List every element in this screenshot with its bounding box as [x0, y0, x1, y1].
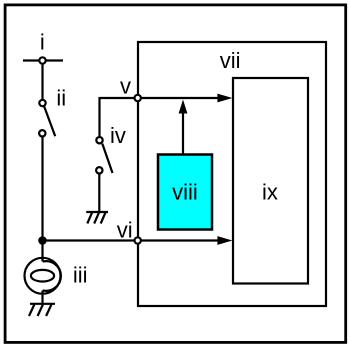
ground: [29, 304, 55, 316]
arrowhead: [217, 236, 232, 245]
svg-text:viii: viii: [172, 180, 198, 205]
svg-text:vi: vi: [117, 217, 133, 242]
node i: [23, 57, 63, 63]
enclosure vii: [138, 42, 326, 306]
switch ii: [39, 100, 55, 137]
svg-text:ii: ii: [56, 86, 66, 111]
svg-text:ix: ix: [262, 180, 278, 205]
svg-text:vii: vii: [220, 48, 241, 73]
wire: [41, 61, 43, 104]
wire: [43, 239, 223, 241]
source iii: [25, 258, 61, 294]
arrow viii to v line: [179, 100, 188, 155]
arrowhead: [217, 94, 232, 103]
node v: [135, 95, 141, 101]
block ix: [233, 78, 308, 284]
wire: [41, 295, 43, 304]
junction dot: [38, 236, 47, 245]
node vi: [135, 237, 141, 243]
wire: [98, 174, 100, 213]
wire: [41, 137, 43, 241]
wire: [41, 241, 43, 261]
wire: [98, 97, 100, 137]
svg-text:v: v: [120, 73, 131, 98]
switch iv: [96, 137, 112, 174]
wire v to ix: [100, 97, 223, 99]
svg-text:iii: iii: [73, 263, 88, 288]
svg-text:iv: iv: [110, 123, 126, 148]
block viii: [158, 155, 212, 230]
ground: [86, 212, 108, 224]
svg-text:i: i: [40, 30, 45, 55]
